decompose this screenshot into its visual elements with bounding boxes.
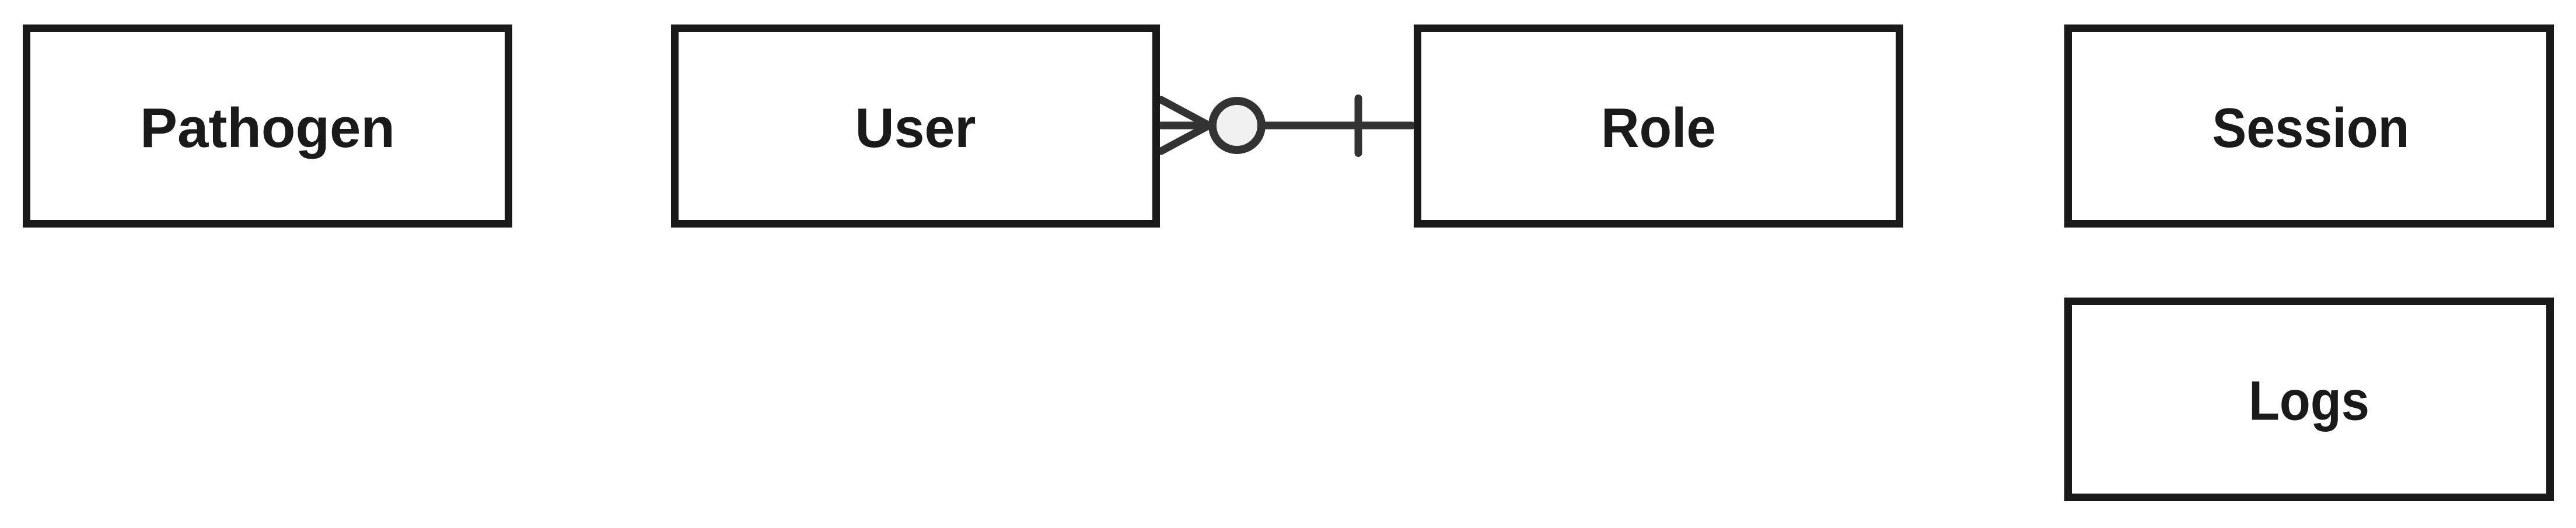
svg-text:Session: Session (2213, 97, 2410, 159)
svg-text:Pathogen: Pathogen (140, 97, 395, 159)
svg-text:User: User (855, 97, 976, 159)
svg-text:Logs: Logs (2249, 370, 2369, 432)
svg-text:Role: Role (1601, 97, 1716, 159)
